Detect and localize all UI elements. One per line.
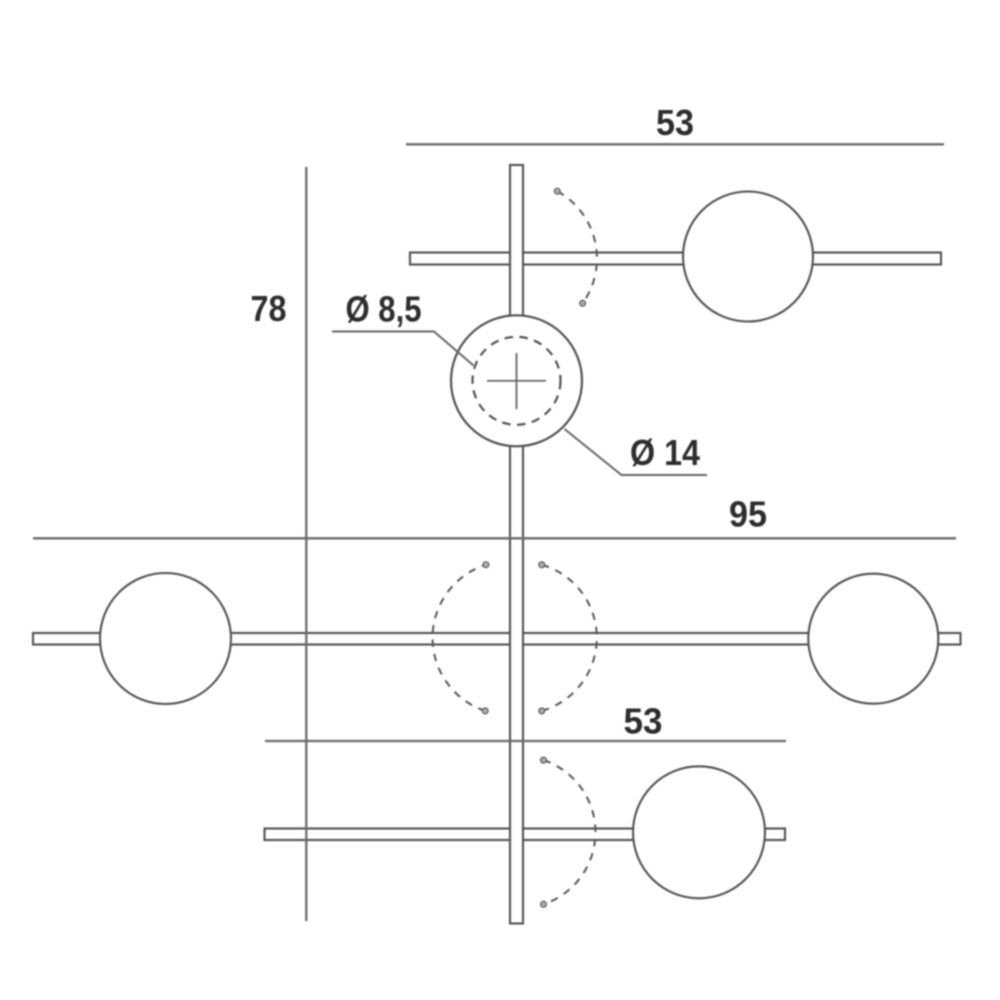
svg-text:53: 53	[656, 102, 694, 143]
dimension line 95	[33, 537, 956, 539]
pivot dot bottom arc upper	[541, 757, 546, 762]
hub center cross vertical	[516, 353, 518, 409]
rotation arc bottom (dashed)	[544, 760, 596, 904]
top sphere	[683, 192, 813, 322]
dimension line 53 (top)	[406, 143, 944, 145]
pivot dot middle right upper	[539, 562, 544, 567]
middle sphere left	[100, 573, 231, 704]
svg-text:95: 95	[729, 494, 767, 535]
pivot dot middle right lower	[539, 708, 544, 713]
rotation arc top (dashed)	[557, 191, 597, 303]
hub dashed circle (Ø8,5)	[473, 337, 561, 425]
svg-text:Ø 8,5: Ø 8,5	[346, 289, 422, 330]
pivot dot middle left lower	[483, 708, 488, 713]
top arm (horizontal rod)	[410, 253, 941, 265]
pivot dot middle left upper	[483, 562, 488, 567]
svg-text:Ø 14: Ø 14	[630, 432, 700, 473]
svg-text:78: 78	[251, 288, 287, 329]
middle sphere right	[808, 574, 938, 704]
pivot dot top arc lower	[580, 301, 585, 306]
dimension line 53 (bottom)	[265, 740, 786, 742]
leader line Ø 14	[565, 429, 708, 475]
hub center cross horizontal	[487, 380, 546, 382]
rotation arc middle left (dashed)	[433, 565, 486, 711]
leader line Ø 8,5	[332, 332, 474, 366]
bottom arm (horizontal rod)	[265, 829, 786, 841]
svg-text:53: 53	[624, 701, 663, 742]
extension line 78 (vertical)	[305, 167, 307, 921]
middle arm (horizontal rod)	[33, 633, 961, 645]
hub outer circle (Ø14)	[451, 315, 582, 446]
pivot dot bottom arc lower	[541, 902, 546, 907]
bottom sphere	[633, 766, 765, 898]
pivot dot top arc upper	[555, 189, 560, 194]
rotation arc middle right (dashed)	[542, 565, 597, 711]
vertical rod (main stem)	[510, 165, 523, 924]
